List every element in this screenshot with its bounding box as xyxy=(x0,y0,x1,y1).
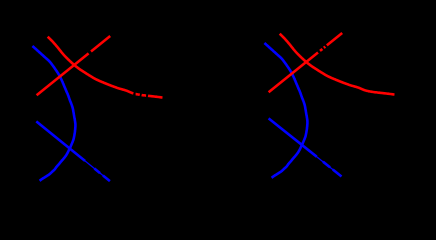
right panel: blue descending line thin tail underlay xyxy=(314,155,341,177)
left panel: blue descending line (dash gaps in tail) xyxy=(36,121,110,181)
right panel: red demand curve (solid) xyxy=(280,34,395,95)
left panel: blue backward-bending curve (arc) xyxy=(32,46,75,181)
right panel: blue descending line (dash gaps in tail) xyxy=(269,118,342,176)
left panel: red demand curve (dashed tail) xyxy=(48,37,163,98)
left panel: red ascending supply line xyxy=(37,36,111,95)
left panel: blue descending line thin tail underlay xyxy=(83,159,109,180)
right panel: blue backward-bending curve (arc) xyxy=(264,43,307,178)
right panel: red ascending supply line (dash-dot top) xyxy=(269,33,343,92)
